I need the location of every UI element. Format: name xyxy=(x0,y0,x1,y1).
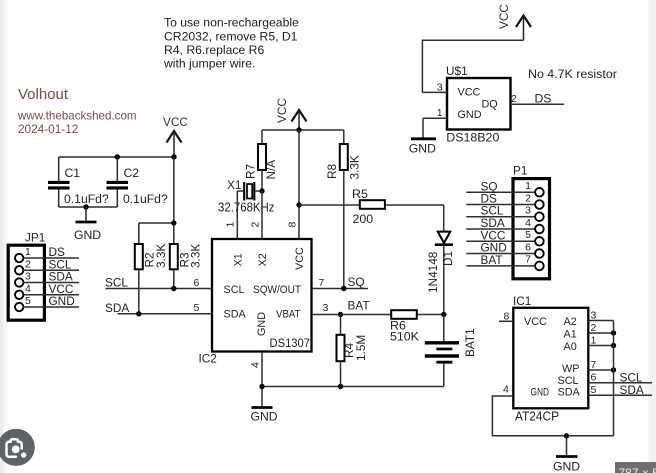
svg-text:VCC: VCC xyxy=(275,98,289,123)
wire JP1 pin 1 xyxy=(23,257,79,259)
svg-text:200: 200 xyxy=(353,212,374,226)
dimension overlay box xyxy=(615,462,656,473)
svg-text:JP1: JP1 xyxy=(25,231,45,245)
svg-text:GND: GND xyxy=(458,109,482,121)
svg-text:5: 5 xyxy=(525,229,531,241)
power VCC symbol 2 xyxy=(275,98,307,130)
junction at C2 top xyxy=(115,154,120,159)
svg-text:1: 1 xyxy=(437,107,443,119)
battery BAT1 xyxy=(425,315,477,387)
wire IC1 pin3 xyxy=(588,320,613,322)
connector P1 pin 4 circle xyxy=(535,225,544,234)
google lens icon xyxy=(0,429,35,466)
junction SCL R3 xyxy=(171,286,176,291)
svg-text:4: 4 xyxy=(525,217,531,229)
svg-text:1: 1 xyxy=(525,180,531,192)
svg-text:1: 1 xyxy=(25,246,31,258)
svg-text:787 × 5: 787 × 5 xyxy=(619,466,656,473)
svg-text:DQ: DQ xyxy=(482,98,498,110)
svg-text:7: 7 xyxy=(319,277,325,289)
svg-text:X1: X1 xyxy=(227,178,241,192)
svg-text:GND: GND xyxy=(531,386,550,398)
svg-text:32.768KHz: 32.768KHz xyxy=(218,200,275,214)
wire bottom ground bus xyxy=(262,386,444,388)
wire DQ to DS xyxy=(511,103,565,105)
wire IC1 pin2 xyxy=(588,332,613,334)
svg-text:4: 4 xyxy=(503,384,509,396)
junction pin4 bus xyxy=(259,384,264,389)
svg-text:3: 3 xyxy=(25,271,31,283)
svg-text:5: 5 xyxy=(591,384,597,396)
page right edge strip xyxy=(646,0,656,473)
svg-text:SCL: SCL xyxy=(558,375,579,387)
ground symbol 3 (U$1) xyxy=(409,139,436,156)
svg-text:GND: GND xyxy=(74,228,101,242)
power VCC symbol 1 xyxy=(163,115,188,157)
wire SCL to IC2 pin6 xyxy=(106,288,213,290)
svg-text:3.3K: 3.3K xyxy=(348,155,362,179)
svg-text:8: 8 xyxy=(287,222,299,228)
junction VCC2 base xyxy=(296,127,301,132)
connector JP1 pin 5 circle xyxy=(15,303,23,311)
svg-text:510K: 510K xyxy=(390,330,420,344)
diode D1 1N4148 xyxy=(426,205,455,315)
svg-text:0.1uFd?: 0.1uFd? xyxy=(123,192,168,206)
wire P1 pin 3 xyxy=(466,216,535,218)
wire IC1 pin8 stub xyxy=(499,320,513,322)
svg-text:1: 1 xyxy=(225,222,237,228)
wire P1 pin 1 xyxy=(466,191,535,193)
svg-text:2: 2 xyxy=(511,93,517,105)
junction pin7 xyxy=(611,367,616,372)
connector P1 box xyxy=(513,179,550,279)
svg-text:GND: GND xyxy=(49,294,75,308)
svg-text:1.5M: 1.5M xyxy=(354,335,368,361)
connector JP1 pin 1 circle xyxy=(15,254,23,262)
svg-text:2: 2 xyxy=(250,222,262,228)
svg-text:R5: R5 xyxy=(352,187,368,201)
wire pin1 to gnd xyxy=(422,118,424,138)
junction SQ R8 xyxy=(341,286,346,291)
svg-text:WP: WP xyxy=(562,363,579,375)
svg-text:SDA: SDA xyxy=(105,301,129,315)
junction D1 R6 BAT1 xyxy=(441,312,446,317)
svg-text:VBAT: VBAT xyxy=(276,309,301,321)
wire IC1 pin1 xyxy=(588,345,613,347)
svg-text:4: 4 xyxy=(25,283,31,295)
wire IC1 tie bus vertical xyxy=(613,321,615,436)
svg-text:BAT: BAT xyxy=(348,299,370,313)
resistor R8 xyxy=(325,130,362,180)
svg-text:GND: GND xyxy=(409,141,436,155)
wire IC1 pin6 SCL xyxy=(588,382,652,384)
svg-text:2: 2 xyxy=(525,192,531,204)
junction BAT R4 xyxy=(338,312,343,317)
svg-text:2024-01-12: 2024-01-12 xyxy=(18,122,78,136)
svg-text:SDA: SDA xyxy=(620,383,644,397)
svg-text:A1: A1 xyxy=(564,328,577,340)
svg-text:CR2032, remove R5, D1: CR2032, remove R5, D1 xyxy=(164,29,298,43)
ground symbol 2 (IC2) xyxy=(251,408,278,424)
wire SQ net xyxy=(312,288,369,290)
svg-text:DS: DS xyxy=(535,91,552,105)
svg-text:SDA: SDA xyxy=(224,309,247,321)
svg-text:R7: R7 xyxy=(244,164,258,179)
wire P1 pin 4 xyxy=(466,228,535,230)
sensor U$1 DS18B20 box xyxy=(447,78,511,130)
wire VCC3 to U$1 pin3 xyxy=(422,40,523,92)
svg-text:GND: GND xyxy=(256,312,268,336)
junction pin8 R5 xyxy=(296,202,301,207)
resistor R7 xyxy=(244,130,279,191)
wire U$1 pin1 xyxy=(423,117,447,119)
resistor R5 200 xyxy=(299,187,444,226)
svg-text:R8: R8 xyxy=(325,163,339,179)
connector P1 pin 3 circle xyxy=(535,212,544,221)
resistor R2 xyxy=(135,223,174,314)
svg-text:3: 3 xyxy=(525,205,531,217)
wire U$1 pin3 xyxy=(422,91,447,93)
wire IC1 pin5 SDA xyxy=(588,394,652,396)
junction at VCC1 base xyxy=(171,154,176,159)
svg-text:6: 6 xyxy=(525,241,531,253)
svg-text:VCC: VCC xyxy=(458,86,481,98)
power VCC symbol 3 xyxy=(497,4,531,41)
svg-text:1N4148: 1N4148 xyxy=(426,251,440,293)
connector P1 pin 1 circle xyxy=(535,188,544,197)
svg-text:Volhout: Volhout xyxy=(18,86,69,103)
svg-text:0.1uFd?: 0.1uFd? xyxy=(64,192,109,206)
resistor R4 1.5M xyxy=(337,315,369,387)
junction R4 bottom xyxy=(338,384,343,389)
connector P1 pin 7 circle xyxy=(535,262,544,271)
wire P1 pin 7 xyxy=(466,265,535,267)
junction SDA R2 xyxy=(136,311,141,316)
svg-text:VCC: VCC xyxy=(163,115,188,129)
wire R8 down to SQ net xyxy=(343,170,345,289)
svg-text:6: 6 xyxy=(194,277,200,289)
svg-text:BAT1: BAT1 xyxy=(463,328,477,357)
junction pin2 xyxy=(611,330,616,335)
svg-text:8: 8 xyxy=(504,310,510,322)
wire P1 pin 2 xyxy=(466,204,535,206)
wire IC2 pin4 xyxy=(261,352,263,408)
connector JP1 box xyxy=(8,245,44,320)
eeprom IC1 AT24CP box xyxy=(513,308,588,409)
svg-text:SQW/OUT: SQW/OUT xyxy=(253,284,301,296)
svg-text:IC1: IC1 xyxy=(513,294,531,308)
connector JP1 pin 3 circle xyxy=(15,278,23,286)
svg-text:1: 1 xyxy=(591,334,597,346)
ground symbol 4 (IC1) xyxy=(553,436,580,473)
svg-text:www.thebackshed.com: www.thebackshed.com xyxy=(17,110,137,123)
svg-text:C1: C1 xyxy=(65,166,81,180)
svg-text:IC2: IC2 xyxy=(199,352,217,366)
wire P1 pin 5 xyxy=(466,240,535,242)
svg-text:P1: P1 xyxy=(513,164,527,178)
svg-text:3.3K: 3.3K xyxy=(189,244,203,268)
svg-text:N/A: N/A xyxy=(264,160,278,180)
svg-text:3: 3 xyxy=(591,309,597,321)
svg-text:VCC: VCC xyxy=(524,316,547,328)
connector P1 pin 6 circle xyxy=(535,249,544,258)
svg-text:SDA: SDA xyxy=(558,386,581,398)
svg-text:A0: A0 xyxy=(564,341,577,353)
capacitor C2 xyxy=(107,157,168,207)
svg-text:5: 5 xyxy=(194,302,200,314)
svg-text:6: 6 xyxy=(591,371,597,383)
junction X2 R7 xyxy=(259,188,264,193)
svg-text:SQ: SQ xyxy=(348,275,365,289)
svg-text:D1: D1 xyxy=(441,251,455,266)
svg-text:7: 7 xyxy=(525,254,531,266)
ground symbol 1 (C1 C2) xyxy=(74,207,101,242)
connector P1 pin 2 circle xyxy=(535,200,544,209)
svg-text:3: 3 xyxy=(323,302,329,314)
capacitor C1 xyxy=(48,157,109,207)
svg-text:SCL: SCL xyxy=(105,276,128,290)
svg-text:7: 7 xyxy=(591,359,597,371)
wire VCC2 rail R7 to R8 xyxy=(262,129,344,131)
crystal X1 32.768KHz xyxy=(218,178,275,214)
resistor R3 xyxy=(170,157,203,289)
wire P1 pin 6 xyxy=(466,253,535,255)
svg-text:R4, R6.replace R6: R4, R6.replace R6 xyxy=(164,43,264,57)
wire IC1 pin7 xyxy=(588,369,613,371)
junction pin1 xyxy=(611,343,616,348)
svg-text:GND: GND xyxy=(251,410,278,424)
svg-text:No 4.7K resistor: No 4.7K resistor xyxy=(528,67,617,81)
svg-text:VCC: VCC xyxy=(294,247,306,270)
annotation note text xyxy=(163,16,299,71)
wire BAT net to R6 xyxy=(312,314,392,316)
junction gnd4 xyxy=(564,433,569,438)
connector JP1 pin 4 circle xyxy=(15,291,23,299)
svg-text:AT24CP: AT24CP xyxy=(515,410,559,424)
svg-text:VCC: VCC xyxy=(497,4,511,29)
wire JP1 pin 4 xyxy=(23,294,79,296)
svg-text:GND: GND xyxy=(553,459,580,473)
svg-text:DS18B20: DS18B20 xyxy=(446,130,499,144)
connector JP1 pin 2 circle xyxy=(15,266,23,274)
wire caps bottom xyxy=(59,206,118,208)
svg-text:A2: A2 xyxy=(564,316,577,328)
wire VCC rail to C1 C2 xyxy=(59,156,174,158)
wire JP1 pin 2 xyxy=(23,269,79,271)
wire X1 pin1 to IC2 xyxy=(236,191,238,239)
svg-text:X2: X2 xyxy=(257,253,269,266)
svg-text:with jumper wire.: with jumper wire. xyxy=(163,57,255,71)
wire VCC2 to pin8 xyxy=(298,130,300,239)
svg-text:U$1: U$1 xyxy=(446,64,468,78)
junction caps gnd xyxy=(83,204,88,209)
svg-text:DS1307: DS1307 xyxy=(270,336,311,350)
svg-text:3.3K: 3.3K xyxy=(154,244,168,268)
svg-text:2: 2 xyxy=(591,322,597,334)
wire SDA to IC2 pin5 xyxy=(118,313,213,315)
wire JP1 pin 5 xyxy=(23,306,79,308)
connector P1 pin 5 circle xyxy=(535,237,544,246)
wire IC1 pin4 to bus xyxy=(492,396,613,436)
svg-text:C2: C2 xyxy=(124,166,140,180)
svg-text:5: 5 xyxy=(25,295,31,307)
svg-text:To use non-rechargeable: To use non-rechargeable xyxy=(164,16,299,30)
op IC2 DS1307 box xyxy=(212,239,312,352)
svg-text:SCL: SCL xyxy=(224,284,245,296)
svg-text:BAT: BAT xyxy=(481,253,503,267)
svg-text:2: 2 xyxy=(25,258,31,270)
svg-text:4: 4 xyxy=(250,362,262,368)
wire R7 X2 to IC2 pin2 xyxy=(261,191,263,239)
wire JP1 pin 3 xyxy=(23,282,79,284)
resistor R6 510K xyxy=(390,310,444,343)
svg-text:X1: X1 xyxy=(233,253,245,266)
